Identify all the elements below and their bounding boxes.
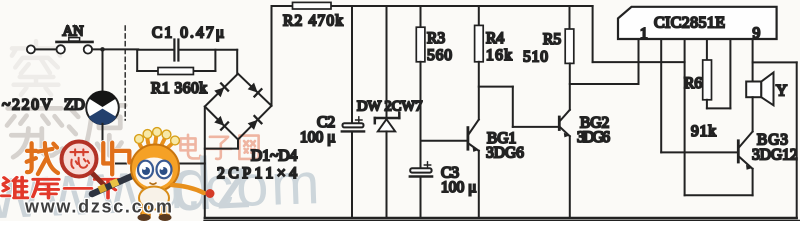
wire: BG1 base: [421, 140, 467, 142]
border bottom: [204, 219, 800, 221]
svg-text:3DG6: 3DG6: [486, 145, 524, 162]
wire: C3 to ground: [420, 178, 422, 218]
watermark pale char jiu: [7, 99, 63, 157]
label C2: [317, 114, 335, 131]
label ZD: [64, 97, 85, 114]
label C3 100u: [441, 179, 476, 196]
speaker Y: [746, 73, 773, 106]
svg-text:CIC2851E: CIC2851E: [654, 15, 725, 32]
resistor R4: [475, 25, 484, 61]
label D1~D4: [251, 148, 298, 165]
label R6 91k: [691, 123, 716, 140]
watermark red text 维库一下: [2, 177, 122, 198]
wire: R5 riser: [569, 6, 571, 29]
label ~220V: [2, 97, 53, 114]
watermark pink char wang: [239, 136, 258, 159]
wire: C1 branch right: [180, 49, 238, 51]
wire: BG2 emitter to ground: [569, 136, 571, 218]
watermark badge 找芯片: [27, 142, 130, 186]
wire: rail drop to chip feed: [593, 6, 685, 62]
label 2CP11x4: [217, 165, 297, 182]
resistor R1: [158, 68, 193, 75]
label R3 560: [427, 47, 452, 64]
resistor R5: [565, 29, 574, 63]
label R4: [486, 30, 504, 47]
bridge diode top-right: [247, 82, 261, 96]
label Y: [776, 83, 787, 100]
wire: switch to node: [92, 48, 138, 50]
transistor BG3: [738, 132, 752, 170]
wire: BG3 emitter loop: [685, 169, 753, 196]
svg-text:510: 510: [523, 49, 548, 66]
svg-text:100 μ: 100 μ: [300, 129, 335, 146]
wire: into bridge top: [236, 50, 238, 74]
wire: R3 down to C3: [420, 62, 422, 168]
svg-text:1: 1: [640, 26, 648, 43]
watermark mascot: [92, 128, 215, 221]
wire: BG1 emitter to ground: [478, 151, 480, 218]
resistor R3: [416, 27, 425, 62]
watermark giant pale url: [149, 151, 323, 222]
wire: mains top lead: [35, 48, 57, 50]
transistor BG1: [468, 120, 479, 152]
bridge rectifier D1~D4 outline: [205, 74, 272, 140]
lamp ZD: [86, 91, 119, 125]
label DW 2CW7: [357, 99, 422, 115]
wire: lamp stem lower: [102, 124, 104, 164]
svg-text:~220V: ~220V: [2, 97, 53, 114]
svg-text:91k: 91k: [691, 123, 716, 140]
svg-text:3DG6: 3DG6: [577, 129, 610, 146]
label BG2: [580, 115, 609, 132]
wire: lamp stem upper: [100, 47, 105, 92]
resistor R6: [703, 60, 712, 100]
wire: C2 to ground: [351, 133, 353, 218]
wire: DW riser: [386, 6, 388, 119]
watermark pink char dian: [180, 135, 200, 159]
label R5 510: [523, 49, 548, 66]
label BG2 3DG6: [577, 129, 610, 146]
svg-text:R4: R4: [486, 30, 504, 47]
label R4 16k: [486, 47, 512, 64]
bridge diode bottom-left: [214, 116, 228, 130]
wire: jog to BG2 base: [479, 87, 558, 127]
wire: R4 riser: [478, 6, 480, 25]
wire: pin9 line: [752, 39, 754, 82]
capacitor C1: [174, 40, 178, 61]
label C2 100u: [300, 129, 335, 146]
switch AN terminal circle left: [27, 45, 35, 53]
svg-text:ZD: ZD: [64, 97, 85, 114]
zener DW: [375, 113, 400, 132]
svg-text:AN: AN: [63, 24, 84, 40]
wire: C2 riser: [351, 6, 353, 123]
wire: R5 to BG2 collector: [569, 63, 571, 109]
svg-text:16k: 16k: [486, 47, 512, 64]
wire: bridge minus drop: [204, 107, 206, 219]
capacitor C2: [342, 117, 364, 132]
wire: R1 branch bottom: [137, 70, 215, 72]
label CIC2851E: [654, 15, 725, 32]
label R6: [684, 75, 702, 92]
label pin 1: [640, 26, 648, 43]
svg-text:R5: R5: [543, 31, 561, 48]
wire: ground rail: [205, 217, 797, 219]
svg-text:Y: Y: [776, 83, 787, 100]
capacitor C3: [410, 162, 432, 177]
svg-text:www.dzsc.com: www.dzsc.com: [24, 197, 172, 217]
svg-text:DW 2CW7: DW 2CW7: [357, 99, 422, 115]
label BG1: [487, 130, 516, 147]
wire: lamp to bridge bottom return: [103, 163, 205, 165]
svg-text:100 μ: 100 μ: [441, 179, 476, 196]
wire: pin5 line: [706, 39, 708, 60]
switch AN pole circle right: [84, 45, 92, 53]
svg-text:R6: R6: [684, 75, 702, 92]
bridge diode bottom-right: [247, 116, 261, 130]
wire: C1 R1 parallel right branch: [214, 50, 216, 71]
svg-text:2CP11×4: 2CP11×4: [217, 165, 297, 182]
wire: C1 branch left: [137, 49, 173, 51]
bridge diode top-left: [214, 83, 228, 97]
IC U1 CIC2851E outline: [618, 7, 777, 39]
label BG1 3DG6: [486, 145, 524, 162]
wire: pin3 line: [660, 39, 662, 152]
label C3: [441, 165, 459, 182]
label R1 360k: [151, 80, 207, 97]
wire: speaker to BG3 collector: [752, 97, 754, 131]
wire: R4 down to BG1 collector: [478, 62, 480, 120]
wire: pin9 jog to right edge: [753, 62, 797, 218]
wire: BG3 base run: [661, 151, 737, 153]
label AN: [63, 24, 84, 40]
wire: BG2 collector to pin2: [570, 39, 639, 84]
watermark dark url www.dzsc.com: [24, 197, 172, 217]
dashed mains boundary line: [124, 26, 126, 120]
wire: C1 R1 parallel left branch: [136, 50, 138, 71]
label pin 9: [753, 25, 761, 42]
transistor BG2: [559, 110, 570, 138]
wire: R3 riser: [420, 6, 422, 27]
wire: bridge bottom stub: [205, 140, 238, 149]
watermark faint char top-left: [12, 41, 60, 95]
wire: top rail: [272, 5, 593, 7]
label R5: [543, 31, 561, 48]
svg-text:R3: R3: [427, 30, 445, 47]
wire: pin6 line: [729, 39, 731, 108]
label BG3 3DG12: [752, 147, 798, 164]
watermark pale char yuan: [68, 105, 125, 157]
svg-text:3DG12: 3DG12: [752, 147, 798, 164]
wire: R6 bottom jog: [707, 100, 731, 109]
wire: pin4 line: [684, 39, 686, 195]
svg-text:560: 560: [427, 47, 452, 64]
switch AN pole circle mid: [57, 45, 65, 53]
wire: DW to ground: [386, 131, 388, 218]
watermark pink char zi: [207, 137, 231, 159]
switch AN actuator bar: [57, 38, 93, 42]
svg-text:R1 360k: R1 360k: [151, 80, 207, 97]
resistor R2: [293, 2, 332, 9]
label R3: [427, 30, 445, 47]
wire: bridge plus riser: [271, 6, 273, 106]
label C1 0.47u: [152, 25, 224, 42]
label R2 470k: [283, 13, 343, 30]
svg-text:9: 9: [753, 25, 761, 42]
label BG3: [757, 132, 788, 149]
svg-text:D1~D4: D1~D4: [251, 148, 298, 165]
